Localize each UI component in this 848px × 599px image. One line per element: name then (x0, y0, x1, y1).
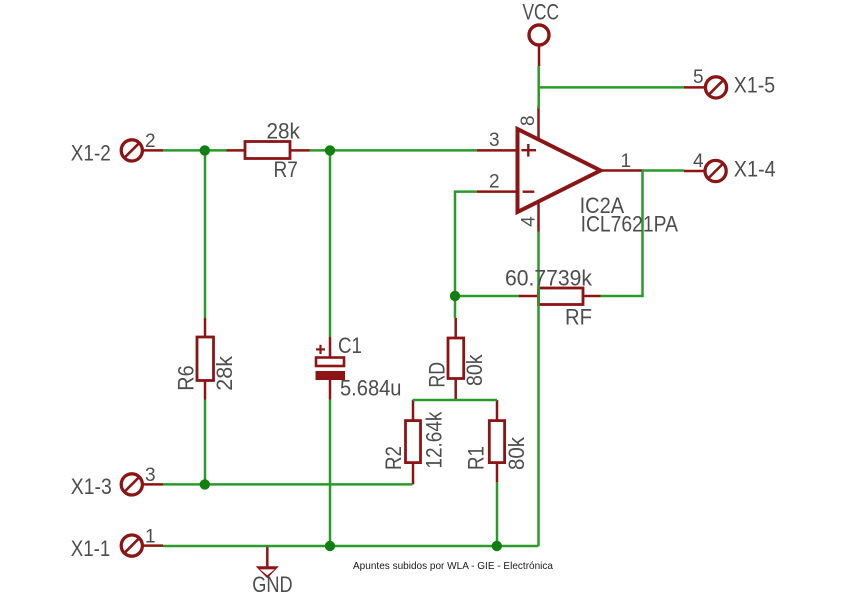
svg-text:3: 3 (145, 465, 156, 486)
svg-text:C1: C1 (338, 333, 362, 358)
svg-text:RF: RF (565, 305, 592, 330)
svg-text:X1-4: X1-4 (734, 157, 776, 182)
svg-text:4: 4 (518, 216, 539, 227)
svg-text:8: 8 (518, 115, 539, 126)
svg-text:5.684u: 5.684u (340, 376, 402, 401)
svg-text:Apuntes subidos por WLA - GIE: Apuntes subidos por WLA - GIE - Electrón… (353, 561, 553, 572)
svg-text:2: 2 (489, 172, 500, 193)
svg-text:12.64k: 12.64k (422, 411, 447, 469)
svg-text:1: 1 (145, 527, 156, 548)
svg-text:RD: RD (425, 362, 450, 388)
svg-text:R1: R1 (464, 446, 489, 470)
svg-text:GND: GND (252, 572, 292, 597)
svg-text:80k: 80k (504, 436, 529, 470)
svg-text:VCC: VCC (523, 0, 560, 25)
svg-text:ICL7621PA: ICL7621PA (581, 212, 679, 237)
svg-text:X1-1: X1-1 (71, 536, 111, 561)
svg-text:R2: R2 (381, 446, 406, 470)
svg-text:1: 1 (621, 151, 632, 172)
svg-text:28k: 28k (212, 355, 237, 391)
svg-text:R6: R6 (173, 365, 198, 390)
svg-text:3: 3 (489, 130, 500, 151)
svg-text:X1-5: X1-5 (734, 73, 775, 98)
svg-text:60.7739k: 60.7739k (505, 266, 593, 291)
svg-text:X1-2: X1-2 (71, 141, 111, 166)
svg-text:5: 5 (693, 67, 704, 88)
svg-text:R7: R7 (274, 157, 298, 182)
svg-text:28k: 28k (267, 119, 301, 144)
svg-text:X1-3: X1-3 (71, 474, 112, 499)
svg-text:80k: 80k (462, 354, 487, 386)
svg-text:2: 2 (145, 131, 156, 152)
svg-text:4: 4 (693, 151, 704, 172)
